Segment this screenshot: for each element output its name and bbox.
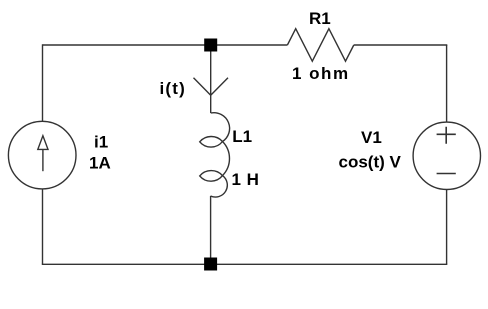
voltage source V1 plus sign	[437, 127, 456, 144]
svg-text:1 H: 1 H	[232, 170, 260, 189]
wire right vertical upper	[446, 45, 448, 122]
wire top-right horizontal (resistor to top-right corner)	[354, 44, 448, 46]
svg-text:i1: i1	[94, 133, 108, 152]
svg-text:L1: L1	[232, 127, 252, 146]
voltage source V1 circle	[413, 122, 480, 189]
svg-text:i(t): i(t)	[160, 79, 187, 98]
svg-text:cos(t) V: cos(t) V	[339, 153, 402, 172]
current source I1 arrowhead (open triangle)	[38, 136, 48, 150]
inductor L1 coil	[200, 113, 230, 197]
current source I1 arrow shaft	[42, 149, 44, 171]
wire left vertical lower	[42, 189, 44, 264]
wire left vertical upper	[42, 44, 44, 121]
wire inductor branch bottom	[210, 196, 212, 264]
wire right vertical lower	[446, 190, 448, 265]
svg-text:R1: R1	[309, 9, 331, 28]
current direction arrow i(t)	[194, 78, 229, 95]
resistor R1 zigzag	[287, 29, 353, 62]
wire inductor branch top	[210, 45, 212, 113]
wire bottom horizontal rail	[42, 263, 448, 265]
wire top-left horizontal (top rail left of resistor)	[43, 44, 288, 46]
node bottom (junction square)	[204, 258, 217, 271]
svg-text:1A: 1A	[89, 154, 111, 173]
svg-text:V1: V1	[361, 128, 382, 147]
voltage source V1 minus sign	[437, 173, 456, 175]
svg-text:1 ohm: 1 ohm	[292, 64, 350, 83]
current source I1 circle	[8, 121, 76, 189]
node top (junction square)	[204, 39, 217, 52]
